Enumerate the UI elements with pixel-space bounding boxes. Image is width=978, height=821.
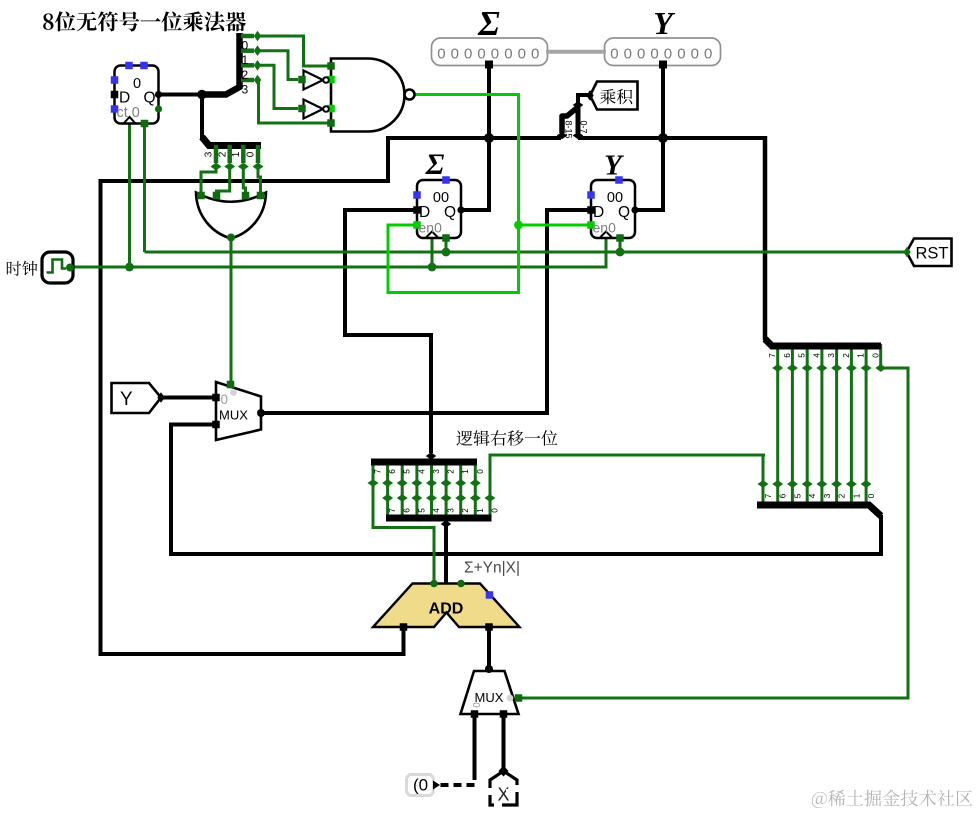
sigma display probe xyxy=(432,38,548,66)
svg-text:5: 5 xyxy=(798,353,807,358)
mux1 port in1 xyxy=(212,421,220,429)
watermark 稀土掘金 xyxy=(812,790,973,809)
svg-text:2: 2 xyxy=(461,508,470,513)
S5 leg diamond bit1 xyxy=(470,494,481,502)
svg-text:Y: Y xyxy=(653,5,675,41)
svg-text:1: 1 xyxy=(852,493,861,498)
OR in port2 xyxy=(213,192,221,200)
counter port left3 xyxy=(111,105,119,113)
svg-text:D: D xyxy=(419,204,430,221)
mux2 port in0 xyxy=(471,710,479,718)
register y wedge xyxy=(600,232,612,238)
S1 leg bit2 xyxy=(241,63,254,68)
wire S2 bit3 to OR in1 xyxy=(201,167,216,197)
adder carry dot2 xyxy=(457,580,465,588)
svg-text:5: 5 xyxy=(403,469,412,474)
S5 leg diamond bit3 xyxy=(441,494,452,502)
S1 leg bit1 xyxy=(241,48,254,53)
wire ADD out to S5 xyxy=(444,526,448,583)
wire S7 bit7 leg xyxy=(762,455,765,505)
wire mux2 left in dashed to constant xyxy=(437,772,475,785)
svg-text:0: 0 xyxy=(221,392,229,407)
S6 leg diamond bit6 xyxy=(787,364,798,372)
clock waveform xyxy=(47,260,67,273)
S1 leg diamond bit2 xyxy=(254,60,261,71)
inverter G1 body xyxy=(304,71,324,90)
counter port top2 xyxy=(140,62,148,70)
svg-text:0: 0 xyxy=(476,469,485,474)
svg-text:1: 1 xyxy=(231,151,242,157)
wire bright loop down xyxy=(388,225,519,293)
svg-text:Q: Q xyxy=(618,204,630,221)
wire shifter column bit0 xyxy=(474,460,477,520)
tunnel product label 乘积 xyxy=(600,89,632,104)
wire Y clock stub xyxy=(605,238,608,269)
svg-text:7: 7 xyxy=(388,508,397,513)
wire sigma-display bus vertical x489 xyxy=(487,64,491,210)
S2 leg diamond bit0 xyxy=(253,163,264,171)
junction counter Q xyxy=(197,90,207,100)
svg-text:2: 2 xyxy=(242,68,249,82)
NAND port in4 xyxy=(327,119,335,127)
svg-text:D: D xyxy=(119,90,130,107)
OR gate G3 body xyxy=(196,193,266,239)
mux2 select square xyxy=(515,694,523,702)
tunnel RST point diamond xyxy=(903,247,910,258)
inverter G2 bubble xyxy=(323,106,329,112)
wire OR output to mux1 select xyxy=(230,237,233,386)
svg-text:MUX: MUX xyxy=(219,408,248,423)
S4 stub diamond xyxy=(426,452,437,459)
wire Y reset stub xyxy=(619,238,622,252)
NAND output bubble xyxy=(405,90,415,100)
svg-text:2: 2 xyxy=(447,469,456,474)
counter port D xyxy=(111,91,119,99)
wire S1 bit3 to NAND in4 xyxy=(258,80,328,123)
wire shifter column bit4 xyxy=(415,460,418,520)
mux2 out dot xyxy=(485,665,493,673)
counter carry dot xyxy=(155,105,162,112)
svg-text:6: 6 xyxy=(403,508,412,513)
wire counter reset vertical xyxy=(143,123,146,252)
svg-text:0: 0 xyxy=(242,39,249,53)
wire mux1 in2 from shift bus xyxy=(171,425,216,555)
S1 leg bit0 xyxy=(241,34,254,39)
S2 leg bit3 xyxy=(214,145,219,163)
S5 leg diamond bit0 xyxy=(484,494,495,502)
label 逻辑右移一位 xyxy=(456,430,557,446)
wire mux2 right in to X pin xyxy=(502,714,506,768)
OR output dot xyxy=(227,234,235,242)
counter port left1 xyxy=(111,76,119,84)
S2 leg bit2 xyxy=(227,145,232,163)
junction clock-counter xyxy=(125,263,134,272)
wire bright to Y en xyxy=(519,224,592,227)
register sigma port reset xyxy=(442,234,450,242)
wire Y-fan column bit7 xyxy=(776,344,779,507)
wire sigma reset stub xyxy=(445,238,448,252)
wire sigma D path xyxy=(345,210,431,453)
wire Y-fan column bit5 xyxy=(806,344,809,507)
inverter G2 in port xyxy=(298,105,306,113)
splitter S3 right leg xyxy=(576,106,581,133)
wire S2 bit1 to OR in3 xyxy=(243,167,245,197)
register y body xyxy=(591,180,635,238)
S2 leg bit0 xyxy=(256,145,261,163)
wire mux1 out to Y D xyxy=(261,210,591,413)
svg-text:3: 3 xyxy=(447,508,456,513)
S6 leg diamond bit4 xyxy=(816,364,827,372)
wire product tunnel stub xyxy=(578,95,590,104)
S1 leg bit3 xyxy=(241,78,254,83)
wire Y-fan column bit6 xyxy=(791,344,794,507)
wire junction down to S2 xyxy=(200,92,204,139)
junction rst-y xyxy=(616,248,625,257)
wire y554 shifted-Y bus xyxy=(169,552,881,556)
S4 leg diamond bit6 xyxy=(382,479,393,487)
register y port en xyxy=(587,221,595,229)
splitter S5 bus xyxy=(386,515,492,522)
S4 leg diamond bit7 xyxy=(368,479,379,487)
svg-text:0-7: 0-7 xyxy=(579,120,589,133)
adder ADD body xyxy=(373,584,520,628)
S7 leg diamond bit1 xyxy=(846,480,857,488)
wire Y-fan column bit4 xyxy=(820,344,823,507)
counter port reset xyxy=(141,120,149,128)
y display port xyxy=(659,61,667,69)
S1 leg diamond bit1 xyxy=(254,45,261,56)
svg-text:1: 1 xyxy=(857,353,866,358)
wire ADD right in from mux2 xyxy=(487,627,491,667)
wire S1 bit2 to inverter2 xyxy=(258,65,299,108)
wire S7 out vertical x881 xyxy=(879,515,883,556)
S2 leg bit1 xyxy=(241,145,246,163)
S4 leg diamond bit5 xyxy=(397,479,408,487)
S1 leg diamond bit3 xyxy=(254,75,261,86)
clock port dot xyxy=(66,264,74,272)
svg-text:RST: RST xyxy=(916,245,949,263)
svg-text:8-15: 8-15 xyxy=(564,120,574,138)
junction y bus y138 xyxy=(658,133,668,143)
wire counter Q to junction xyxy=(158,93,204,97)
splitter S3 bus diamond xyxy=(573,101,584,108)
NAND port in1 xyxy=(327,62,335,70)
svg-text:3: 3 xyxy=(432,469,441,474)
pin X white dashes xyxy=(487,785,521,808)
OR in port3 xyxy=(242,192,250,200)
svg-text:1: 1 xyxy=(476,508,485,513)
svg-text:5: 5 xyxy=(417,508,426,513)
svg-text:0: 0 xyxy=(246,151,257,157)
splitter S6 bus xyxy=(765,339,881,346)
wire S2 bit2 to OR in2 xyxy=(217,167,230,197)
register y port reset xyxy=(616,234,624,242)
svg-text:6: 6 xyxy=(783,353,792,358)
svg-text:Σ: Σ xyxy=(425,148,445,181)
adder carry-in dot xyxy=(430,580,438,588)
wire Y-display bus vertical x663 xyxy=(661,64,665,210)
svg-text:2: 2 xyxy=(842,353,851,358)
tunnel product point diamond xyxy=(586,90,593,101)
inverter G1 bubble xyxy=(323,77,329,83)
svg-text:2: 2 xyxy=(838,493,847,498)
S7 leg diamond bit5 xyxy=(787,480,798,488)
svg-text:0: 0 xyxy=(472,702,483,708)
OR in port4 xyxy=(257,192,265,200)
register y port top xyxy=(615,176,623,184)
splitter S1 bus xyxy=(202,33,240,95)
counter Q dot xyxy=(155,91,162,98)
NAND gate U1 body xyxy=(331,59,405,132)
wire Y-fan column bit3 xyxy=(835,344,838,507)
wire Y Q to junction xyxy=(635,208,665,212)
S4 leg diamond bit3 xyxy=(426,479,437,487)
inverter G1 in port xyxy=(298,76,306,84)
junction sigma bus y138 xyxy=(484,133,494,143)
mux2 port in1 xyxy=(500,710,508,718)
svg-text:0: 0 xyxy=(871,353,880,358)
svg-text:7: 7 xyxy=(764,493,773,498)
NAND port in3 bright xyxy=(327,105,335,113)
wire sigma Q to junction xyxy=(461,208,491,212)
counter clock wedge xyxy=(124,117,136,124)
register y Q dot xyxy=(631,206,638,213)
svg-text:3: 3 xyxy=(204,151,215,157)
title text 8-bit unsigned 1-bit multiplier xyxy=(43,11,246,31)
S4 leg diamond bit2 xyxy=(441,479,452,487)
wire Y-fan column bit1 xyxy=(865,344,868,507)
svg-text:Σ: Σ xyxy=(477,4,500,43)
wire shifter out bit0 to S7 bit7 xyxy=(490,455,765,518)
counter port top1 xyxy=(125,62,133,70)
S7 leg diamond bit4 xyxy=(802,480,813,488)
wire S6 feed vertical x765 xyxy=(765,136,772,346)
S5 leg diamond bit7 xyxy=(382,494,393,502)
label 时钟 xyxy=(7,261,38,276)
S5 leg diamond bit2 xyxy=(455,494,466,502)
adder carry-out port xyxy=(486,591,494,599)
wire sigma clock stub xyxy=(431,238,434,267)
tunnel Y point diamond xyxy=(157,392,164,403)
mux MUX2 body xyxy=(461,671,519,714)
S4 leg diamond bit0 xyxy=(470,479,481,487)
wire shifter column bit6 xyxy=(386,460,389,520)
y display probe xyxy=(605,38,721,66)
wire S2 bit0 to OR in4 xyxy=(258,167,261,197)
S5 stub diamond xyxy=(441,520,452,527)
svg-text:0: 0 xyxy=(133,76,141,92)
svg-text:4: 4 xyxy=(808,493,817,498)
wire shifter column bit2 xyxy=(445,460,448,520)
wire clock line y267 xyxy=(71,266,606,269)
splitter S2 bus xyxy=(202,137,261,146)
svg-text:00000000: 00000000 xyxy=(437,46,544,63)
svg-text:2: 2 xyxy=(217,151,228,157)
wire left big loop sigma to ADD xyxy=(101,136,404,654)
adder port inB xyxy=(485,623,493,631)
svg-text:Y: Y xyxy=(604,150,624,182)
constant 0 arrow xyxy=(433,781,440,790)
svg-text:00000000: 00000000 xyxy=(610,46,717,63)
svg-text:7: 7 xyxy=(374,469,383,474)
mux MUX1 body xyxy=(216,382,261,440)
S7 leg diamond bit2 xyxy=(831,480,842,488)
counter CT1 body xyxy=(115,66,159,124)
wire Y-fan column bit2 xyxy=(850,344,853,507)
mux1 out dot xyxy=(257,409,265,417)
wire S1 bit0 to NAND in1 xyxy=(258,36,329,66)
svg-text:Q: Q xyxy=(144,90,156,107)
mux1 select square xyxy=(227,381,235,389)
pin X point diamond xyxy=(499,766,509,777)
svg-text:3: 3 xyxy=(827,353,836,358)
S5 leg diamond bit6 xyxy=(397,494,408,502)
svg-text:7: 7 xyxy=(768,353,777,358)
S5 leg diamond bit4 xyxy=(426,494,437,502)
svg-text:6: 6 xyxy=(388,469,397,474)
register sigma body xyxy=(417,180,461,238)
register sigma port top xyxy=(442,176,450,184)
splitter S4 bus xyxy=(371,459,477,466)
splitter S7 bus xyxy=(757,505,881,516)
svg-text:en0: en0 xyxy=(419,220,443,236)
wire mux2 left in xyxy=(473,714,477,772)
wire shifter column bit3 xyxy=(430,460,433,520)
svg-text:1: 1 xyxy=(242,53,249,67)
S2 leg diamond bit1 xyxy=(238,163,249,171)
pin X body xyxy=(490,771,517,805)
S7 leg diamond bit3 xyxy=(816,480,827,488)
wire counter clock vertical xyxy=(128,123,131,267)
register sigma port en xyxy=(413,221,421,229)
svg-text:0: 0 xyxy=(490,508,499,513)
svg-text:Σ+Yn|X|: Σ+Yn|X| xyxy=(464,560,520,577)
S6 leg diamond bit2 xyxy=(846,364,857,372)
svg-text:4: 4 xyxy=(417,469,426,474)
svg-text:en0: en0 xyxy=(593,220,617,236)
S6 leg diamond bit7 xyxy=(772,364,783,372)
adder port inA xyxy=(400,623,408,631)
wire Y tunnel to mux1 xyxy=(158,396,216,400)
svg-text:1: 1 xyxy=(461,469,470,474)
tunnel Y xyxy=(112,383,162,413)
register y port left xyxy=(587,191,595,199)
wire y138 right (y bus) xyxy=(578,136,767,140)
splitter S3 left leg xyxy=(562,107,578,133)
wire S1 bit1 to inverter1 xyxy=(258,51,299,80)
S7 leg diamond bit6 xyxy=(772,480,783,488)
S1 leg diamond bit0 xyxy=(254,31,261,42)
S4 leg diamond bit1 xyxy=(455,479,466,487)
junction bright green xyxy=(514,221,523,230)
junction rst-sigma xyxy=(442,248,451,257)
mux2 select gray dot xyxy=(507,695,514,702)
clock pin body xyxy=(42,252,73,283)
wire RST line y252 xyxy=(145,251,906,254)
S5 leg diamond bit5 xyxy=(411,494,422,502)
svg-text:D: D xyxy=(593,204,604,221)
register sigma wedge xyxy=(426,232,438,238)
register sigma port D xyxy=(413,206,421,214)
tunnel product body xyxy=(590,82,638,110)
S2 leg diamond bit2 xyxy=(224,163,235,171)
svg-text:ADD: ADD xyxy=(429,601,464,618)
wire S6 bit0 to mux2 select xyxy=(519,344,908,698)
svg-text:Y: Y xyxy=(120,389,133,410)
S7 leg diamond bit0 xyxy=(861,480,872,488)
svg-text:6: 6 xyxy=(779,493,788,498)
inverter G2 body xyxy=(304,100,324,119)
mux1 select gray dot xyxy=(230,389,237,396)
svg-text:4: 4 xyxy=(432,508,441,513)
wire NAND out bright xyxy=(414,95,519,226)
constant 0 halo xyxy=(407,775,434,796)
svg-text:ct 0: ct 0 xyxy=(117,105,140,121)
S6 leg diamond bit1 xyxy=(861,364,872,372)
mux1 port in0 xyxy=(212,394,220,402)
tunnel RST xyxy=(907,239,952,267)
S3 right leg diamond xyxy=(573,132,584,139)
svg-text:Q: Q xyxy=(444,204,456,221)
wire shifter column bit5 xyxy=(401,460,404,520)
register y port D xyxy=(587,206,595,214)
register sigma Q dot xyxy=(457,206,464,213)
svg-text:4: 4 xyxy=(812,353,821,358)
svg-text:3: 3 xyxy=(242,83,249,97)
junction clock-sigma xyxy=(428,263,437,272)
S4 leg diamond bit4 xyxy=(411,479,422,487)
svg-text:3: 3 xyxy=(823,493,832,498)
S7 leg diamond bit7 xyxy=(758,480,769,488)
S6 leg diamond bit3 xyxy=(831,364,842,372)
S2 leg diamond bit3 xyxy=(211,163,222,171)
svg-text:(0: (0 xyxy=(413,776,428,795)
wire shifter wrap bit7 to ADD carry xyxy=(373,460,434,583)
register sigma port left xyxy=(413,191,421,199)
wire gray between displays xyxy=(546,50,606,54)
S6 leg diamond bit0 xyxy=(875,364,886,372)
svg-text:5: 5 xyxy=(794,493,803,498)
wire shifter column bit1 xyxy=(459,460,462,520)
S6 leg diamond bit5 xyxy=(802,364,813,372)
wire y138 left (sigma bus) xyxy=(386,136,561,140)
OR in port1 xyxy=(197,192,205,200)
svg-text:0: 0 xyxy=(867,493,876,498)
S3 left leg diamond xyxy=(557,132,568,139)
NAND port in2 bright xyxy=(327,76,335,84)
sigma display port xyxy=(485,61,493,69)
